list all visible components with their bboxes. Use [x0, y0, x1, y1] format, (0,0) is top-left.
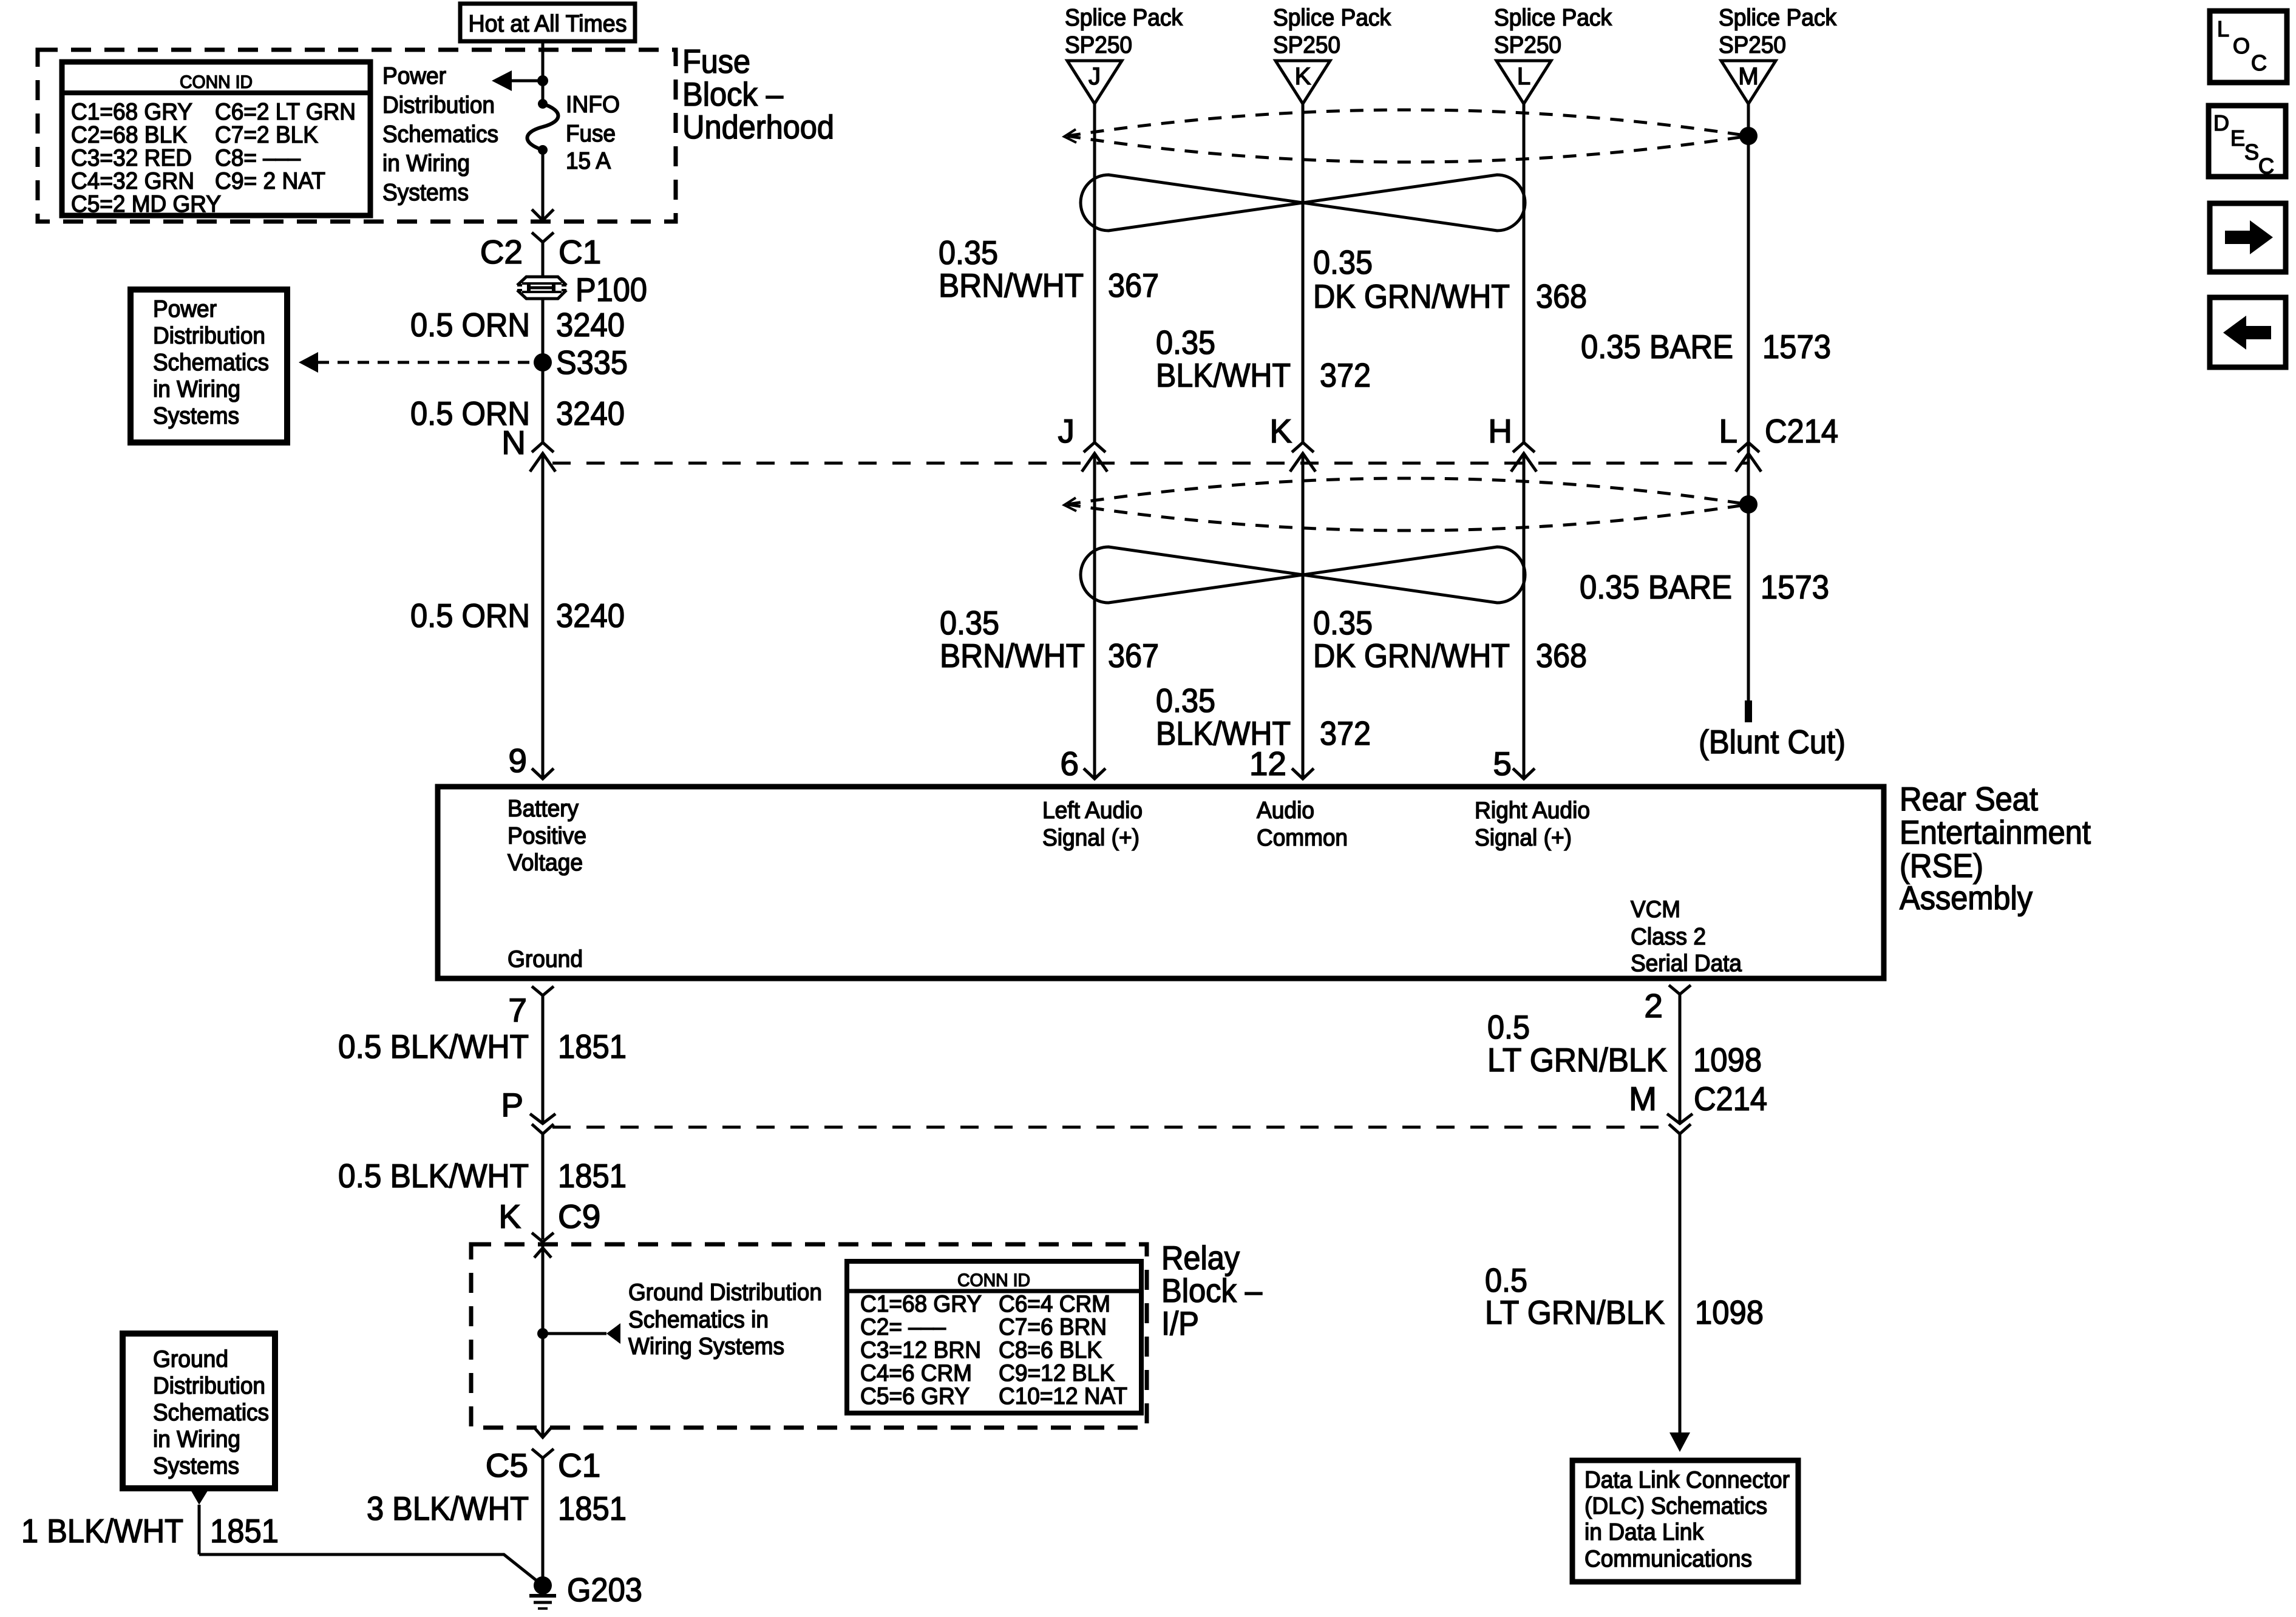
CONN ID table (relay block) — [847, 1261, 1141, 1413]
fuse INFO 15A symbol — [528, 99, 559, 155]
svg-text:Splice Pack: Splice Pack — [1494, 5, 1612, 31]
Power Distribution Schematics box (left) — [131, 290, 287, 442]
svg-text:2: 2 — [1644, 987, 1663, 1025]
svg-text:L: L — [1719, 412, 1737, 450]
in-line connector chevrons at M (C214 lower boundary) — [1667, 1114, 1693, 1432]
twisted pair symbol (upper) — [1081, 175, 1525, 231]
in-line connector chevrons at P (C214 lower boundary) — [530, 1114, 555, 1239]
svg-text:0.35: 0.35 — [1313, 243, 1373, 281]
svg-text:372: 372 — [1320, 356, 1371, 394]
svg-text:INFO: INFO — [566, 92, 620, 118]
svg-text:Splice Pack: Splice Pack — [1273, 5, 1391, 31]
svg-text:Battery: Battery — [508, 796, 579, 822]
dashed connector line C214 (lower) — [552, 1126, 1666, 1129]
svg-text:Fuse: Fuse — [682, 42, 750, 80]
svg-text:C3=32 RED: C3=32 RED — [71, 145, 192, 171]
svg-text:1573: 1573 — [1762, 328, 1831, 365]
wire label 0.35 DK GRN/WHT 368 (upper) — [1313, 243, 1587, 315]
Fuse Block - Underhood dashed box — [38, 50, 676, 222]
RSE pin 7 connector (Y) — [532, 986, 554, 995]
svg-text:DK GRN/WHT: DK GRN/WHT — [1313, 637, 1510, 674]
Rear Seat Entertainment (RSE) Assembly box — [438, 787, 1884, 978]
svg-text:0.35: 0.35 — [1156, 682, 1215, 719]
svg-text:in Wiring: in Wiring — [153, 1426, 240, 1453]
svg-text:5: 5 — [1493, 745, 1512, 782]
svg-text:0.35 BARE: 0.35 BARE — [1580, 568, 1732, 606]
svg-text:368: 368 — [1536, 637, 1587, 674]
wire label 0.35 DK GRN/WHT 368 (lower) — [1313, 604, 1587, 674]
svg-text:0.35 BARE: 0.35 BARE — [1581, 328, 1733, 365]
svg-text:C5=2 MD GRY: C5=2 MD GRY — [71, 191, 221, 217]
svg-text:3240: 3240 — [556, 395, 625, 432]
wire M from splice pack down to blunt cut — [1747, 104, 1750, 700]
connector C214 chevrons at J — [1082, 442, 1107, 777]
svg-text:O: O — [2233, 33, 2250, 58]
svg-text:Underhood: Underhood — [682, 108, 834, 146]
svg-text:Rear Seat: Rear Seat — [1900, 780, 2038, 818]
svg-text:G203: G203 — [567, 1571, 642, 1609]
svg-text:P100: P100 — [576, 271, 647, 308]
wire P100 to S335 — [542, 297, 545, 442]
previous arrow icon — [2210, 297, 2286, 367]
svg-text:S335: S335 — [556, 344, 628, 381]
pin numbers on RSE top — [508, 742, 1512, 782]
svg-text:DK GRN/WHT: DK GRN/WHT — [1313, 277, 1510, 315]
svg-text:Distribution: Distribution — [153, 1373, 265, 1399]
wire 1 BLK/WHT from other grounds — [198, 1505, 201, 1554]
svg-text:P: P — [501, 1086, 523, 1124]
svg-text:D: D — [2213, 110, 2229, 135]
wire from fuse to fuse block edge — [542, 150, 545, 220]
svg-text:Left Audio: Left Audio — [1042, 798, 1143, 824]
svg-text:CONN ID: CONN ID — [180, 72, 253, 92]
svg-text:12: 12 — [1249, 745, 1286, 782]
serial data wire from pin 2 — [1679, 994, 1682, 1124]
svg-text:Ground: Ground — [153, 1346, 228, 1372]
CONN ID table (fuse block) — [62, 62, 370, 217]
connector C9 cavity K labels — [498, 1198, 600, 1235]
DESC icon — [2209, 106, 2286, 178]
svg-text:SP250: SP250 — [1494, 32, 1561, 58]
RSE pin 2 connector (Y) — [1669, 985, 1691, 994]
svg-text:J: J — [1089, 63, 1101, 90]
svg-text:Serial Data: Serial Data — [1631, 951, 1742, 977]
svg-text:0.5 BLK/WHT: 0.5 BLK/WHT — [338, 1157, 529, 1195]
wire label 0.5 BLK/WHT 1851 (lower) — [338, 1157, 627, 1195]
svg-text:3 BLK/WHT: 3 BLK/WHT — [367, 1490, 529, 1527]
Relay Block - I/P dashed box — [471, 1244, 1147, 1428]
junction node at power distribution tap — [537, 75, 548, 86]
arrow from ground distribution box to wire — [190, 1489, 209, 1505]
svg-text:C5: C5 — [486, 1446, 528, 1484]
svg-text:0.5 ORN: 0.5 ORN — [410, 597, 530, 634]
svg-text:C1: C1 — [558, 1446, 600, 1484]
svg-text:C10=12 NAT: C10=12 NAT — [999, 1383, 1127, 1409]
svg-text:Systems: Systems — [153, 1453, 239, 1479]
svg-text:M: M — [1629, 1080, 1657, 1117]
svg-text:1098: 1098 — [1695, 1293, 1764, 1331]
wire label 0.35 BARE 1573 (lower) — [1580, 568, 1829, 606]
svg-text:C2: C2 — [480, 233, 523, 271]
svg-text:Schematics in: Schematics in — [628, 1307, 769, 1333]
svg-text:C8= –––: C8= ––– — [215, 145, 301, 171]
svg-text:E: E — [2230, 126, 2245, 151]
svg-text:Block –: Block – — [1161, 1272, 1262, 1309]
Relay Block - I/P label — [1161, 1239, 1262, 1342]
Rear Seat Entertainment (RSE) Assembly label — [1900, 780, 2091, 917]
svg-text:0.35: 0.35 — [940, 604, 999, 642]
down arrow exiting relay block — [534, 1428, 551, 1437]
junction to ground distribution — [537, 1328, 548, 1339]
wire J from splice pack to C214 — [1093, 104, 1096, 442]
svg-text:VCM: VCM — [1631, 897, 1680, 923]
wire through relay block — [542, 1242, 545, 1437]
svg-text:0.35: 0.35 — [1313, 604, 1373, 642]
up arrow inside relay block — [534, 1248, 551, 1258]
wire label 0.35 BRN/WHT 367 (lower) — [940, 604, 1159, 674]
svg-text:C1=68 GRY: C1=68 GRY — [860, 1291, 982, 1317]
twisted pair symbol (lower) — [1081, 547, 1525, 603]
svg-text:C1: C1 — [559, 233, 601, 271]
wire label 0.35 BRN/WHT 367 (upper) — [939, 234, 1159, 304]
Ground Distribution Schematics box (bottom left) — [123, 1334, 275, 1488]
svg-text:9: 9 — [508, 742, 527, 779]
svg-text:1 BLK/WHT: 1 BLK/WHT — [21, 1512, 183, 1550]
svg-text:Distribution: Distribution — [382, 92, 495, 118]
svg-text:LT GRN/BLK: LT GRN/BLK — [1485, 1293, 1665, 1331]
svg-text:C7=6 BRN: C7=6 BRN — [999, 1314, 1107, 1340]
Power Distribution Schematics in Wiring Systems (fuse block note) — [382, 63, 498, 206]
svg-text:C7=2 BLK: C7=2 BLK — [215, 122, 318, 148]
RSE pin 9 connector chevron — [532, 768, 554, 779]
ground wire from pin 7 — [542, 995, 545, 1124]
blunt cut end of wire M — [1745, 700, 1752, 722]
connector C214 chevrons at L (cavity H) — [1511, 442, 1537, 777]
wire label 0.5 ORN 3240 (lower) — [410, 597, 625, 634]
RSE pin 5 connector chevron — [1513, 768, 1535, 779]
svg-text:Relay: Relay — [1161, 1239, 1240, 1276]
Ground Distribution Schematics note (relay block) — [628, 1280, 822, 1360]
wire label 0.5 LT GRN/BLK 1098 (upper) — [1487, 1008, 1762, 1079]
svg-text:L: L — [2217, 16, 2229, 41]
svg-text:BLK/WHT: BLK/WHT — [1156, 356, 1291, 394]
svg-text:1098: 1098 — [1693, 1041, 1762, 1079]
splice pack SP250 M — [1719, 5, 1836, 104]
wire label 0.5 ORN 3240 (above S335) — [410, 306, 625, 344]
grommet P100 — [517, 271, 647, 308]
RSE pin function labels — [508, 796, 1742, 977]
wire label 0.35 BLK/WHT 372 (lower) — [1156, 682, 1371, 752]
svg-text:C214: C214 — [1765, 412, 1838, 450]
svg-text:1851: 1851 — [558, 1490, 627, 1527]
ground G203 — [529, 1571, 642, 1609]
svg-text:BRN/WHT: BRN/WHT — [940, 637, 1085, 674]
svg-text:0.5 BLK/WHT: 0.5 BLK/WHT — [338, 1028, 529, 1065]
splice pack SP250 J — [1065, 5, 1183, 104]
Data Link Connector (DLC) box — [1572, 1460, 1798, 1582]
svg-text:Positive: Positive — [508, 823, 586, 849]
svg-text:Power: Power — [153, 296, 217, 322]
svg-text:Ground Distribution: Ground Distribution — [628, 1280, 822, 1306]
RSE pin 12 connector chevron — [1292, 768, 1314, 779]
svg-text:K: K — [1295, 63, 1311, 90]
svg-text:C3=12 BRN: C3=12 BRN — [860, 1337, 981, 1363]
svg-text:Communications: Communications — [1584, 1546, 1752, 1572]
svg-text:C5=6 GRY: C5=6 GRY — [860, 1383, 970, 1409]
dashed harness ellipse (upper) — [1064, 110, 1758, 162]
svg-text:Schematics: Schematics — [153, 350, 269, 376]
svg-text:K: K — [1269, 412, 1292, 450]
svg-text:C4=32 GRN: C4=32 GRN — [71, 168, 194, 194]
svg-text:Systems: Systems — [382, 180, 469, 206]
svg-text:Audio: Audio — [1257, 798, 1314, 824]
svg-text:Block –: Block – — [682, 75, 783, 113]
svg-text:Power: Power — [382, 63, 446, 89]
svg-text:Schematics: Schematics — [153, 1400, 269, 1426]
dashed harness ellipse (lower) — [1064, 478, 1758, 531]
svg-text:Class 2: Class 2 — [1631, 924, 1706, 950]
svg-text:Signal (+): Signal (+) — [1042, 825, 1140, 851]
svg-text:C9: C9 — [558, 1198, 600, 1235]
svg-text:N: N — [501, 424, 526, 461]
svg-text:SP250: SP250 — [1719, 32, 1786, 58]
svg-text:I/P: I/P — [1161, 1304, 1199, 1342]
svg-text:BRN/WHT: BRN/WHT — [939, 266, 1084, 304]
svg-text:1851: 1851 — [210, 1512, 279, 1550]
svg-text:C214: C214 — [1694, 1080, 1767, 1117]
svg-text:C4=6 CRM: C4=6 CRM — [860, 1360, 972, 1386]
svg-text:Voltage: Voltage — [508, 850, 583, 876]
svg-text:C9=12 BLK: C9=12 BLK — [999, 1360, 1115, 1386]
svg-text:C8=6 BLK: C8=6 BLK — [999, 1337, 1102, 1363]
svg-text:Wiring Systems: Wiring Systems — [628, 1334, 784, 1360]
wire label 0.5 ORN 3240 (below S335) — [410, 395, 625, 432]
svg-text:C: C — [2251, 50, 2267, 75]
svg-text:3240: 3240 — [556, 306, 625, 344]
svg-text:H: H — [1488, 412, 1512, 450]
svg-text:Entertainment: Entertainment — [1900, 813, 2091, 851]
svg-text:SP250: SP250 — [1065, 32, 1132, 58]
splice S335 — [534, 353, 552, 371]
next arrow icon — [2210, 203, 2286, 272]
svg-text:367: 367 — [1108, 637, 1159, 674]
connector C1 (Y symbol) below relay block — [532, 1449, 554, 1458]
svg-text:7: 7 — [508, 991, 527, 1029]
svg-text:C9= 2 NAT: C9= 2 NAT — [215, 168, 325, 194]
wire from Hot at All Times down to fuse — [542, 41, 545, 104]
svg-text:Common: Common — [1257, 825, 1348, 851]
svg-text:Splice Pack: Splice Pack — [1065, 5, 1183, 31]
connector C214 chevrons at K — [1290, 442, 1316, 777]
svg-text:in Data Link: in Data Link — [1584, 1519, 1703, 1545]
svg-text:Schematics: Schematics — [382, 121, 498, 147]
splice pack SP250 K — [1273, 5, 1391, 104]
svg-text:S: S — [2244, 140, 2259, 164]
wire L from splice pack to C214 — [1523, 104, 1526, 442]
wire K from splice pack to C214 — [1302, 104, 1305, 442]
down arrow at fuse block exit — [532, 209, 554, 220]
RSE pin 6 connector chevron — [1084, 768, 1106, 779]
wire label 0.5 BLK/WHT 1851 (upper) — [338, 1028, 627, 1065]
cavity labels at C214 (upper) — [1058, 412, 1839, 450]
svg-text:0.5 ORN: 0.5 ORN — [410, 306, 530, 344]
connector C9 (Y symbol) at relay block — [532, 1233, 554, 1242]
wire label 3 BLK/WHT 1851 — [367, 1490, 627, 1527]
svg-text:Splice Pack: Splice Pack — [1719, 5, 1836, 31]
wire label 0.35 BLK/WHT 372 (upper) — [1156, 324, 1371, 394]
svg-text:1851: 1851 — [558, 1157, 627, 1195]
svg-text:K: K — [498, 1198, 521, 1235]
svg-text:368: 368 — [1536, 277, 1587, 315]
svg-text:0.5: 0.5 — [1487, 1008, 1530, 1046]
svg-text:L: L — [1517, 63, 1530, 90]
svg-text:in Wiring: in Wiring — [153, 376, 240, 402]
splice pack SP250 L — [1494, 5, 1612, 104]
cavity M / C214 labels — [1629, 1080, 1767, 1117]
svg-text:0.35: 0.35 — [939, 234, 998, 271]
svg-text:Systems: Systems — [153, 403, 239, 429]
svg-text:Hot at All Times: Hot at All Times — [469, 11, 627, 37]
svg-text:C1=68 GRY: C1=68 GRY — [71, 99, 192, 125]
svg-text:0.35: 0.35 — [1156, 324, 1215, 361]
INFO Fuse 15 A label — [566, 92, 620, 174]
arrow to power distribution schematics — [492, 70, 543, 91]
svg-text:(Blunt Cut): (Blunt Cut) — [1699, 723, 1846, 761]
svg-text:372: 372 — [1320, 714, 1371, 752]
svg-text:1573: 1573 — [1761, 568, 1829, 606]
svg-text:C2= –––: C2= ––– — [860, 1314, 946, 1340]
svg-text:C2=68 BLK: C2=68 BLK — [71, 122, 187, 148]
dashed reference line from S335 to power distribution box — [318, 361, 533, 364]
wire to G203 — [199, 1554, 543, 1585]
svg-text:C6=2 LT GRN: C6=2 LT GRN — [215, 99, 356, 125]
svg-text:Assembly: Assembly — [1900, 879, 2033, 917]
svg-text:Distribution: Distribution — [153, 323, 265, 349]
connector C214 chevrons at M (cavity L) — [1736, 442, 1761, 472]
svg-text:Right Audio: Right Audio — [1475, 798, 1590, 824]
LOC icon — [2210, 11, 2287, 83]
svg-text:Ground: Ground — [508, 946, 583, 972]
wire label 0.35 BARE 1573 (upper) — [1581, 328, 1831, 365]
svg-text:CONN ID: CONN ID — [957, 1270, 1030, 1290]
svg-text:J: J — [1058, 412, 1075, 450]
dashed connector line C214 (upper) — [552, 462, 1748, 465]
svg-text:C: C — [2258, 154, 2274, 178]
svg-text:in Wiring: in Wiring — [382, 151, 470, 177]
svg-text:Data Link Connector: Data Link Connector — [1584, 1467, 1790, 1493]
wire label 0.5 LT GRN/BLK 1098 (lower) — [1485, 1261, 1764, 1331]
svg-text:LT GRN/BLK: LT GRN/BLK — [1487, 1041, 1667, 1079]
svg-text:15 A: 15 A — [566, 148, 611, 174]
svg-text:6: 6 — [1060, 745, 1079, 782]
svg-text:3240: 3240 — [556, 597, 625, 634]
connector C5/C1 labels — [486, 1446, 601, 1484]
svg-text:Fuse: Fuse — [566, 121, 616, 147]
arrow into Data Link Connector box — [1669, 1432, 1690, 1452]
in-line connector chevrons at N (C214 boundary) — [530, 442, 555, 777]
svg-text:1851: 1851 — [558, 1028, 627, 1065]
svg-text:C6=4 CRM: C6=4 CRM — [999, 1291, 1110, 1317]
svg-text:SP250: SP250 — [1273, 32, 1340, 58]
svg-text:Signal (+): Signal (+) — [1475, 825, 1572, 851]
svg-text:367: 367 — [1108, 266, 1159, 304]
Fuse Block - Underhood label — [682, 42, 834, 146]
svg-text:(DLC) Schematics: (DLC) Schematics — [1584, 1493, 1767, 1519]
Hot at All Times box — [460, 4, 635, 41]
connector C2/C1 (Y symbol) — [532, 232, 554, 242]
svg-text:M: M — [1738, 63, 1758, 90]
